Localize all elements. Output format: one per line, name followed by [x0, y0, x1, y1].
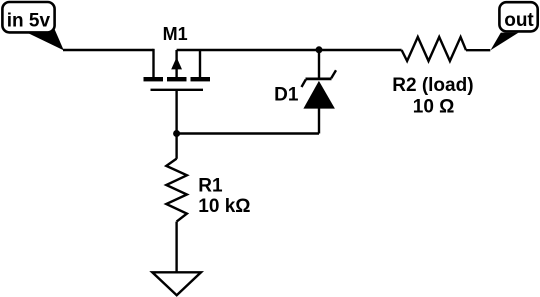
wire M1 source to node A [177, 49, 319, 51]
svg-text:R1: R1 [198, 175, 223, 196]
wire node A to D1 cathode [318, 50, 320, 80]
resistor R1 [166, 159, 187, 222]
transistor M1 [144, 49, 211, 90]
wire in5v to M1 drain [63, 49, 154, 51]
svg-text:10 Ω: 10 Ω [413, 96, 455, 117]
zener diode D1 [302, 70, 337, 108]
resistor R2 [402, 37, 466, 61]
svg-text:10 kΩ: 10 kΩ [198, 196, 250, 217]
svg-text:D1: D1 [274, 84, 299, 105]
wire D1 anode down [318, 109, 320, 134]
wire D1 anode to node B [177, 132, 319, 134]
svg-text:out: out [504, 10, 534, 31]
svg-text:M1: M1 [163, 24, 188, 44]
wire node B to R1 [175, 134, 177, 159]
svg-text:R2 (load): R2 (load) [392, 75, 473, 96]
node out [491, 2, 538, 50]
junction node B [173, 130, 180, 137]
wire R1 to ground [175, 222, 177, 273]
node in 5v [2, 2, 63, 50]
ground [152, 272, 201, 295]
wire node A to R2 [319, 49, 402, 51]
svg-text:in 5v: in 5v [7, 10, 51, 31]
wire R2 to out [466, 49, 490, 51]
junction node A [316, 46, 323, 53]
wire M1 gate to node B [175, 90, 177, 134]
